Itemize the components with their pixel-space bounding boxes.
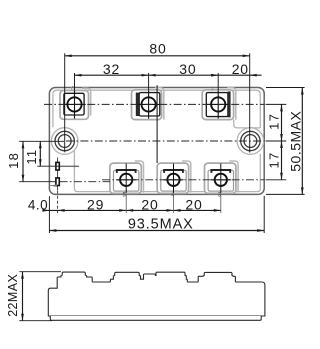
svg-text:3: 3 — [218, 193, 222, 199]
svg-text:17: 17 — [267, 152, 282, 169]
svg-text:4: 4 — [171, 193, 175, 199]
svg-text:93.5MAX: 93.5MAX — [128, 216, 194, 232]
svg-text:18: 18 — [6, 152, 21, 169]
svg-text:80: 80 — [149, 40, 166, 56]
svg-text:20: 20 — [141, 196, 158, 212]
svg-text:11: 11 — [24, 149, 39, 165]
svg-text:30: 30 — [179, 61, 196, 77]
svg-text:17: 17 — [267, 113, 282, 130]
svg-text:20: 20 — [232, 61, 249, 77]
svg-text:50.5MAX: 50.5MAX — [287, 110, 303, 171]
svg-text:29: 29 — [87, 196, 104, 212]
svg-text:22MAX: 22MAX — [6, 274, 20, 317]
svg-text:2: 2 — [211, 87, 215, 93]
svg-text:32: 32 — [103, 61, 120, 77]
svg-text:20: 20 — [185, 196, 202, 212]
